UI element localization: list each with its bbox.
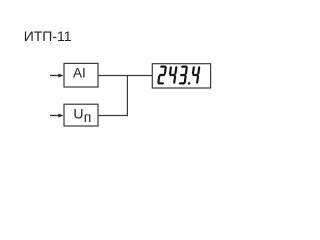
svg-text:ИТП-11: ИТП-11 bbox=[24, 28, 72, 44]
wire Uп to junction bbox=[98, 115, 128, 117]
svg-text:AI: AI bbox=[73, 65, 86, 80]
svg-text:U: U bbox=[73, 106, 83, 122]
display box bbox=[152, 64, 210, 88]
block AI box bbox=[64, 63, 98, 87]
svg-text:п: п bbox=[84, 109, 92, 125]
block Uп box bbox=[64, 104, 98, 126]
arrow into AI bbox=[50, 74, 64, 78]
wire AI to display bbox=[98, 75, 152, 77]
arrow into Uп bbox=[50, 114, 64, 118]
display digits 243.4 bbox=[157, 66, 200, 85]
wire vertical junction riser bbox=[126, 76, 128, 117]
